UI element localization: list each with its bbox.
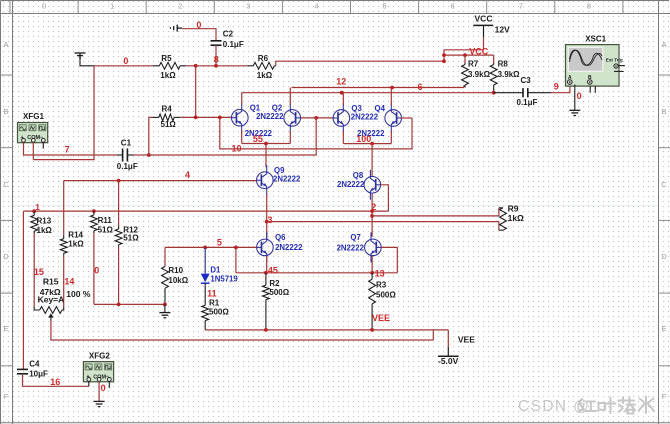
svg-text:100: 100 <box>356 134 371 144</box>
junction Q6.E/R2 <box>264 271 268 275</box>
junction node8/C2 <box>214 64 218 68</box>
potentiometer R15 47k Key=A <box>34 307 64 321</box>
svg-text:B: B <box>3 107 8 116</box>
wire COM to net 0 rail <box>33 66 94 160</box>
svg-text:Q6: Q6 <box>275 233 286 242</box>
svg-text:A: A <box>568 75 572 81</box>
svg-text:A: A <box>661 40 666 49</box>
svg-text:XFG1: XFG1 <box>23 112 44 121</box>
ground G3 (XFG2) <box>94 401 105 406</box>
watermark chinese glyphs <box>579 397 655 414</box>
svg-text:1kΩ: 1kΩ <box>37 226 53 235</box>
junction Q7.E/R3 <box>370 271 374 275</box>
svg-text:R4: R4 <box>162 105 173 114</box>
svg-text:C: C <box>661 180 667 189</box>
wire C2 to node 8 <box>215 45 217 66</box>
svg-text:Q7: Q7 <box>350 233 360 242</box>
wire R6 to VCC feed <box>276 61 444 66</box>
svg-text:Q4: Q4 <box>375 104 386 113</box>
wire Q2 emitter down <box>289 131 291 144</box>
svg-text:6: 6 <box>451 2 455 11</box>
wire Q3/Q4 emitter join net 100 <box>343 143 391 145</box>
svg-text:A: A <box>3 40 8 49</box>
svg-text:Key=A: Key=A <box>38 295 65 305</box>
svg-text:B: B <box>661 107 666 116</box>
svg-text:100 %: 100 % <box>66 289 91 299</box>
wire scope A- to ground <box>574 85 576 111</box>
junction Q8 emitter/net1 <box>370 209 374 213</box>
svg-text:4: 4 <box>314 2 318 11</box>
wire Q2 base to Q3 base <box>300 117 333 119</box>
svg-text:Q8: Q8 <box>353 171 364 180</box>
wire Q9 emitter down <box>266 194 268 222</box>
ground G4 (scope) <box>569 110 580 115</box>
wire net 4 (to Q9 base) <box>64 180 257 182</box>
junction Q3 collector <box>340 91 344 95</box>
wire left column net 1 to C4 <box>22 211 24 369</box>
svg-text:XSC1: XSC1 <box>585 35 606 44</box>
wire Q4 collector up <box>390 88 392 106</box>
svg-text:R13: R13 <box>37 217 52 226</box>
power VCC symbol 12V <box>473 24 493 26</box>
svg-text:2N2222: 2N2222 <box>256 112 284 121</box>
svg-text:R11: R11 <box>98 216 113 225</box>
wire net 4 drop to R12 <box>118 181 120 226</box>
wire Q1 collector up <box>241 93 243 105</box>
wire C1 left lead <box>117 154 123 156</box>
resistor R3 500&#937; <box>369 273 376 330</box>
junction net5/45 tie <box>234 246 238 250</box>
capacitor C3 0.1&#956;F <box>523 88 528 97</box>
svg-text:E: E <box>3 324 8 333</box>
wire net 0 bottom (R11/R12 to R10/gnd) <box>94 303 165 305</box>
svg-text:B: B <box>588 75 592 81</box>
wire to VEE symbol <box>447 330 449 347</box>
svg-text:1kΩ: 1kΩ <box>257 71 273 80</box>
wire rail net 9 side (Q1.C Q3.C to R8/C3) <box>242 92 494 94</box>
svg-text:Ext Trig: Ext Trig <box>606 57 623 62</box>
wire ground G2 to C2 <box>182 29 216 41</box>
wire Q1 emitter down <box>241 131 243 144</box>
junction emitters to Q9 <box>264 142 268 146</box>
wire C1 right lead <box>127 154 133 156</box>
wire rail net 6 (Q2.C Q4.C to R7) <box>292 85 464 88</box>
svg-text:2N2222: 2N2222 <box>275 243 303 252</box>
svg-text:11: 11 <box>207 288 217 298</box>
wire net 7 XFG1+ to C1 <box>24 142 118 155</box>
transistor Q1 2N2222 <box>232 103 249 133</box>
resistor R7 3.9k&#937; <box>462 63 469 87</box>
wire R11 bottom net 0 <box>93 233 95 304</box>
wire R4 left drop <box>149 117 153 155</box>
wire rail join step <box>432 330 434 340</box>
resistor R10 10k&#937; <box>162 267 169 305</box>
junction Q9 emitter/Q6 collector <box>265 220 269 224</box>
wire scope B- stub <box>594 86 596 93</box>
svg-text:R15: R15 <box>43 276 59 286</box>
junction R8 bottom <box>492 91 496 95</box>
svg-text:1kΩ: 1kΩ <box>68 240 84 249</box>
svg-text:0.1μF: 0.1μF <box>117 162 138 171</box>
svg-text:10kΩ: 10kΩ <box>168 276 188 285</box>
junction R13 top <box>32 209 36 213</box>
instrument XSC1 oscilloscope <box>566 45 620 87</box>
svg-text:R5: R5 <box>161 54 172 63</box>
page divider line <box>13 205 658 207</box>
ground G5 (R10) <box>159 313 170 318</box>
transistor Q8 2N2222 <box>364 170 381 200</box>
XSC1 ext trig terminal <box>614 64 618 68</box>
capacitor C1 0.1&#956;F <box>123 149 128 162</box>
junction C1/R4 <box>147 153 151 157</box>
svg-text:3: 3 <box>246 2 250 11</box>
transistor Q7 2N2222 <box>365 232 382 262</box>
svg-text:2N2222: 2N2222 <box>351 113 379 122</box>
side ruler ticks <box>0 75 670 366</box>
svg-text:45: 45 <box>268 265 278 275</box>
resistor R12 51&#937; <box>115 226 122 247</box>
wire C3 right lead <box>528 92 551 94</box>
junction net4/R12 <box>117 179 121 183</box>
junction D1 anode <box>203 246 207 250</box>
svg-text:1kΩ: 1kΩ <box>160 71 176 80</box>
wire VCC rail to R7 R8 <box>444 54 494 56</box>
junction Q2/Q3 base tie <box>314 116 318 120</box>
svg-text:0.1μF: 0.1μF <box>517 98 538 107</box>
XFG1 pins <box>22 138 26 142</box>
junction R12 bottom <box>117 303 121 307</box>
junction R11 top <box>92 209 96 213</box>
svg-text:1kΩ: 1kΩ <box>508 213 524 223</box>
transistor Q3 2N2222 <box>333 103 350 133</box>
wire line B (C1 to Q2/Q3 bases) <box>149 118 316 155</box>
resistor R11 51&#937; <box>91 211 98 233</box>
resistor R8 3.9k&#937; <box>490 63 497 93</box>
XFG2 pins <box>87 378 91 382</box>
svg-text:XFG2: XFG2 <box>89 351 110 360</box>
resistor R14 1k&#937; <box>60 236 67 256</box>
svg-text:R7: R7 <box>468 59 479 68</box>
wire Q8 base loop <box>381 185 389 211</box>
svg-text:D: D <box>3 252 9 261</box>
svg-text:500Ω: 500Ω <box>209 308 229 317</box>
wire net 3 (Q9.E to R9 bottom) <box>267 221 499 223</box>
junction VCC rail <box>442 53 446 57</box>
svg-text:9: 9 <box>554 81 559 91</box>
svg-text:1: 1 <box>35 203 40 212</box>
svg-text:-5.0V: -5.0V <box>438 356 459 366</box>
svg-text:VEE: VEE <box>372 313 390 323</box>
wire D1 cathode to R1 <box>204 283 206 305</box>
wire to Q9 collector <box>265 144 267 168</box>
svg-text:VEE: VEE <box>458 335 475 345</box>
wire C3 left lead <box>494 92 523 94</box>
XSC1 terminal B <box>588 80 593 85</box>
svg-text:8: 8 <box>587 2 591 11</box>
wire Q6 emitter down <box>266 256 268 273</box>
wire Q2 collector up <box>289 88 291 105</box>
svg-text:2N2222: 2N2222 <box>273 175 301 184</box>
wire R4 to Q1 base <box>180 116 231 118</box>
svg-text:R8: R8 <box>498 59 509 68</box>
svg-text:3.9kΩ: 3.9kΩ <box>498 70 521 79</box>
instrument XFG1 function generator <box>18 123 48 143</box>
svg-text:0: 0 <box>123 56 128 66</box>
svg-text:0: 0 <box>101 383 106 393</box>
junction net 10 drop <box>218 116 222 120</box>
wire Q4 emitter down <box>390 131 392 144</box>
junction emitters to Q8 <box>370 142 374 146</box>
svg-text:D1: D1 <box>210 266 221 275</box>
transistor Q9 2N2222 <box>257 165 274 195</box>
svg-text:2N2222: 2N2222 <box>337 180 365 189</box>
wire Q7 emitter down <box>371 256 373 273</box>
wire VCC stem black <box>483 25 485 37</box>
transistor Q6 2N2222 <box>257 232 274 262</box>
svg-text:0: 0 <box>42 2 46 11</box>
wire XFG1 - stub <box>42 142 44 148</box>
wire net 10 (Q1 base to Q4 base) <box>220 117 412 148</box>
svg-text:16: 16 <box>50 377 60 387</box>
svg-text:F: F <box>4 392 9 401</box>
junction R7 top <box>463 53 467 57</box>
wire ext trig stub+ <box>618 65 625 67</box>
junction node8/R4 drop <box>194 64 198 68</box>
svg-text:R9: R9 <box>508 203 519 213</box>
resistor R6 1k&#937; <box>247 62 275 69</box>
svg-text:7: 7 <box>519 2 523 11</box>
wire R9 top stub <box>498 208 500 216</box>
svg-text:C1: C1 <box>121 138 132 147</box>
ground G1 (net 0, near XFG1 rail) <box>75 53 86 58</box>
wire R12 bottom <box>118 247 120 305</box>
wire VEE rail (R1/R2/R3 bottoms) <box>205 329 448 331</box>
junction net 2 branch <box>370 214 374 218</box>
wire C4 to XFG2 + net 16 <box>23 374 89 387</box>
svg-text:500Ω: 500Ω <box>376 291 396 300</box>
wire VEE stem black <box>447 347 449 356</box>
wire Q3 emitter down <box>342 131 344 144</box>
svg-text:R3: R3 <box>376 280 387 289</box>
wire R8 top lead <box>493 55 495 63</box>
wire node8 drop to R4 line <box>195 66 197 118</box>
wire pot wiper rail to VEE <box>51 321 433 340</box>
svg-text:0: 0 <box>94 265 99 275</box>
svg-text:0.1μF: 0.1μF <box>223 40 244 49</box>
wire XFG2 - stub <box>108 381 110 388</box>
svg-text:C4: C4 <box>29 359 40 368</box>
svg-text:Q2: Q2 <box>272 103 283 112</box>
svg-text:13: 13 <box>375 268 385 278</box>
svg-text:5: 5 <box>383 2 387 11</box>
instrument XFG2 function generator <box>83 362 113 382</box>
svg-text:R10: R10 <box>168 266 183 275</box>
junction R4 line/node8 drop <box>194 116 198 120</box>
resistor R2 500&#937; <box>263 273 270 330</box>
svg-text:CSDN @: CSDN @ <box>518 398 590 415</box>
wire R14 bottom to pot right net 14 <box>63 256 65 308</box>
wire R13 bottom to pot left net 15 <box>33 234 35 308</box>
svg-text:6: 6 <box>418 82 423 92</box>
svg-text:D: D <box>661 252 667 261</box>
wire R7 top lead <box>464 55 466 63</box>
wire net 2 to R9 top <box>372 215 499 217</box>
wire net 5 line <box>165 246 257 248</box>
wire Q3 collector up <box>342 93 344 105</box>
svg-text:5: 5 <box>217 237 222 247</box>
transistor Q4 2N2222 <box>385 103 402 133</box>
svg-text:4: 4 <box>185 170 190 180</box>
svg-text:C3: C3 <box>521 76 532 85</box>
XSC1 terminal A <box>568 80 573 85</box>
wire net 4 drop to R14 <box>63 181 65 236</box>
svg-text:E: E <box>661 324 666 333</box>
wire ground G1 stub <box>80 58 94 66</box>
svg-text:F: F <box>662 392 667 401</box>
svg-text:3.9kΩ: 3.9kΩ <box>468 70 491 79</box>
svg-text:Q3: Q3 <box>351 104 362 113</box>
resistor R13 1k&#937; <box>31 211 38 233</box>
top ruler ticks <box>10 0 623 14</box>
junction R10 bottom/ground <box>163 303 167 307</box>
svg-text:R14: R14 <box>68 230 83 239</box>
transistor Q2 2N2222 <box>284 103 301 133</box>
svg-text:1: 1 <box>110 2 114 11</box>
svg-text:12V: 12V <box>495 24 510 34</box>
junction R3 bottom <box>370 328 374 332</box>
svg-text:2: 2 <box>178 2 182 11</box>
wire XFG2 COM to ground <box>98 381 100 401</box>
wire R9 bottom stub <box>498 222 500 231</box>
wire C3 to scope A input <box>551 86 570 93</box>
svg-text:1N5719: 1N5719 <box>210 275 238 284</box>
svg-text:7: 7 <box>65 144 70 154</box>
svg-text:10μF: 10μF <box>29 370 48 379</box>
svg-text:C2: C2 <box>223 30 234 39</box>
capacitor C2 0.1&#956;F <box>211 41 222 45</box>
wire net 0 rail to R5 <box>94 65 153 67</box>
svg-text:0: 0 <box>196 20 201 30</box>
wire C1 to junction <box>134 154 149 156</box>
ground G2 (net 0, above C2) <box>170 25 182 32</box>
wire net5 to 45 line drop <box>235 247 237 272</box>
svg-text:51Ω: 51Ω <box>98 225 114 234</box>
svg-text:55: 55 <box>253 134 263 144</box>
junction R2 bottom <box>264 328 268 332</box>
svg-text:12: 12 <box>336 77 346 87</box>
wire net 1 line (R13/R11 to Q8) <box>23 210 388 212</box>
resistor R5 1k&#937; <box>153 62 186 69</box>
wire net 8 (R5 to R6) <box>186 65 247 67</box>
wire to Q8 collector <box>371 144 373 177</box>
wire Q6 collector up <box>266 222 268 239</box>
resistor R1 500&#937; <box>202 305 209 330</box>
wire Q1/Q2 emitter join net 55 <box>242 143 291 145</box>
svg-text:C: C <box>3 180 9 189</box>
wire Q4 base right <box>401 117 413 119</box>
svg-text:51Ω: 51Ω <box>123 233 139 242</box>
svg-text:14: 14 <box>64 276 74 286</box>
wire scope B+ stub <box>589 86 591 93</box>
junction Q4 collector on net 6 <box>390 86 394 90</box>
svg-text:51Ω: 51Ω <box>161 120 177 129</box>
svg-text:R6: R6 <box>258 54 269 63</box>
wire ground G5 stub <box>164 304 166 312</box>
capacitor C4 10&#956;F <box>17 369 28 373</box>
svg-text:R2: R2 <box>269 279 280 288</box>
wire VCC to rails <box>444 37 484 61</box>
svg-text:2N2222: 2N2222 <box>337 243 365 252</box>
wire Q8 emitter to Q7 collector <box>371 193 373 236</box>
svg-text:0: 0 <box>577 91 582 101</box>
svg-text:3: 3 <box>268 215 273 225</box>
svg-text:R1: R1 <box>209 298 220 307</box>
wire XFG1 COM stub <box>32 142 34 159</box>
resistor R4 51&#937; <box>153 114 180 121</box>
wire net 45 line <box>236 272 397 274</box>
svg-text:VCC: VCC <box>475 13 493 23</box>
wire XFG2 + stub <box>88 381 90 386</box>
junction VCC/R6 feed <box>442 59 446 63</box>
svg-text:500Ω: 500Ω <box>269 288 289 297</box>
wire Q7 base loop <box>381 247 397 272</box>
wire R10 top lead <box>164 247 166 266</box>
wire ext trig stub- <box>614 70 624 72</box>
wire D1 anode lead <box>204 247 206 273</box>
